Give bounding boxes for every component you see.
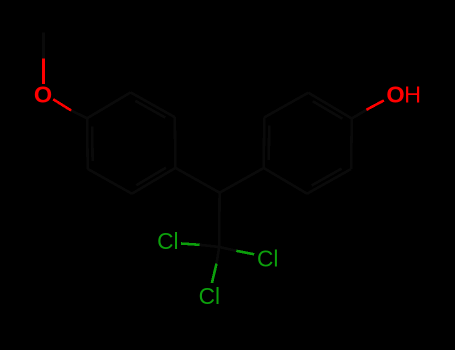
wire methyl C-O bond dark half	[42, 33, 45, 59]
wire right ring double bond 3	[267, 126, 270, 160]
wire C-Cl1 bond dark half	[200, 245, 220, 247]
wire bond central CH to CCl3 carbon	[218, 193, 221, 247]
wire left ring bond 2	[131, 92, 175, 117]
svg-text:O: O	[386, 81, 404, 107]
wire bond right-ring ipso to central CH	[220, 168, 264, 193]
svg-text:Cl: Cl	[257, 245, 278, 271]
wire left ring bond 6	[132, 168, 176, 194]
wire right ring bond 2	[307, 169, 351, 194]
svg-text:Cl: Cl	[157, 228, 178, 254]
wire left ring bond 1	[174, 117, 177, 168]
wire C-Cl2 bond dark half	[219, 247, 236, 251]
wire right ring bond 1	[264, 168, 307, 194]
wire left ring double bond 2	[91, 126, 94, 161]
wire C-Cl2 bond green half	[236, 251, 254, 255]
svg-text:Cl: Cl	[199, 283, 220, 309]
wire left ring bond 3	[87, 92, 131, 118]
wire right ring double bond 1	[312, 169, 342, 186]
wire right ring bond 3	[350, 119, 353, 170]
wire C-Cl1 bond green half	[181, 244, 200, 245]
wire left ring double bond 3	[136, 168, 166, 186]
wire left ring double bond 1	[135, 101, 165, 118]
wire right ring double bond 2	[313, 101, 343, 119]
wire methyl C-O bond red half	[42, 59, 45, 84]
svg-text:H: H	[404, 81, 421, 107]
wire bond left-ring ipso to central CH	[175, 168, 219, 193]
wire right ring bond 5	[264, 93, 308, 118]
wire C-Cl3 bond dark half	[217, 247, 220, 264]
wire right ring bond 4	[308, 93, 352, 119]
wire left ring bond 4	[86, 118, 89, 169]
wire C-Cl3 bond green half	[212, 264, 217, 283]
svg-text:O: O	[34, 81, 52, 107]
wire C(aryl)-OH bond dark half	[352, 110, 367, 119]
wire C(aryl)-OH bond red half	[366, 100, 384, 109]
wire O-C(aryl) bond red half	[53, 99, 71, 110]
wire O-C(aryl) bond dark half	[71, 111, 87, 119]
wire left ring bond 5	[88, 169, 132, 194]
wire right ring bond 6	[262, 117, 265, 168]
